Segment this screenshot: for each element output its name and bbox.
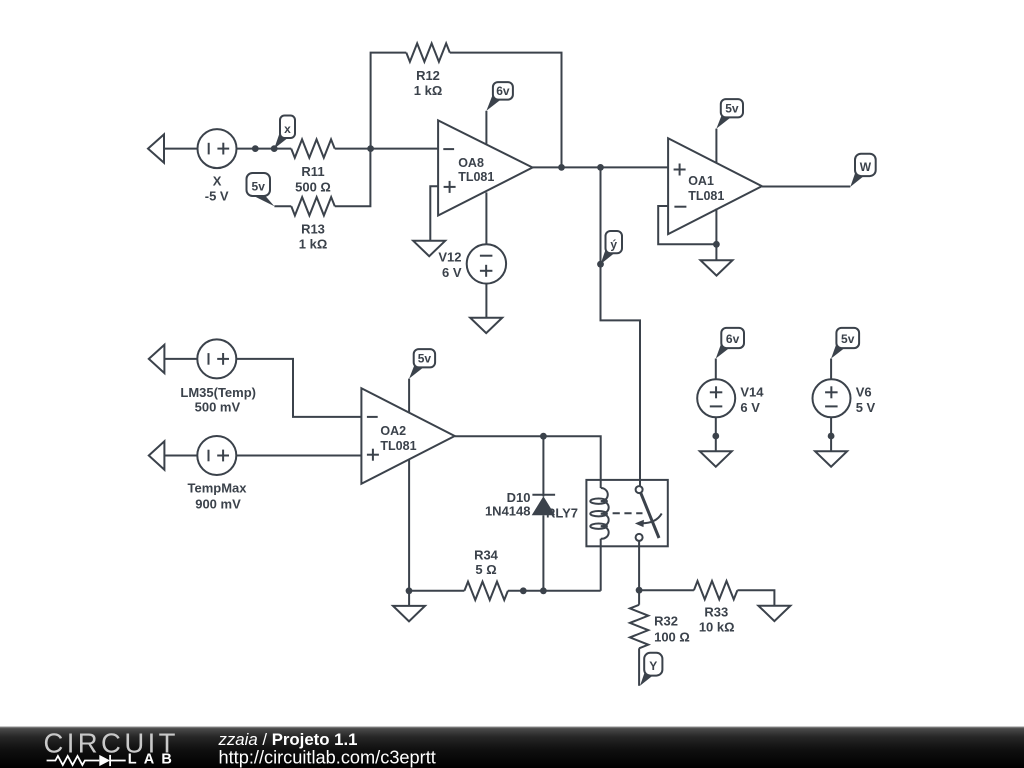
wire [715, 359, 717, 380]
svg-text:http://circuitlab.com/c3eprtt: http://circuitlab.com/c3eprtt [219, 748, 436, 768]
relay coil [590, 488, 608, 539]
flag 5v (V6) [831, 328, 859, 359]
wire [830, 359, 832, 380]
svg-text:6v: 6v [496, 84, 510, 98]
resistor R32 [630, 605, 648, 649]
wire (feedback up to R12) [371, 53, 407, 149]
flag 5v (OA1) [716, 99, 743, 129]
op-amp OA1 [668, 138, 762, 234]
svg-text:R34: R34 [474, 548, 499, 563]
svg-text:V14: V14 [740, 384, 764, 399]
svg-text:1 kΩ: 1 kΩ [299, 237, 328, 252]
svg-text:1N4148: 1N4148 [485, 503, 531, 518]
label R12 1 kohm [414, 68, 443, 98]
node dot [540, 587, 547, 594]
node junction [558, 164, 565, 171]
node dot [828, 433, 835, 440]
wire [335, 148, 438, 150]
resistor R11 [291, 139, 335, 157]
wire (OA1 V- pin) [715, 209, 717, 260]
node junction [540, 433, 547, 440]
input port arrow (X source) [148, 134, 164, 162]
svg-text:R32: R32 [654, 614, 678, 629]
wire (coil bottom pin) [600, 539, 602, 591]
relay RLY7 box [586, 480, 667, 546]
svg-text:zzaia / Projeto 1.1: zzaia / Projeto 1.1 [218, 730, 358, 749]
ground [815, 451, 847, 466]
label R13 1 kohm [299, 221, 328, 251]
svg-text:LM35(Temp): LM35(Temp) [180, 385, 256, 400]
ground [470, 318, 502, 333]
svg-text:5v: 5v [418, 352, 432, 366]
wire [164, 358, 197, 360]
diode D10 [532, 436, 555, 591]
op-amp OA8 [438, 120, 532, 215]
voltage source V14 [697, 379, 735, 417]
flag W [850, 154, 875, 187]
svg-text:RLY7: RLY7 [546, 506, 578, 521]
svg-text:TempMax: TempMax [188, 480, 248, 495]
wire [830, 417, 832, 451]
input port arrow (TempMax) [149, 441, 165, 469]
label OA1 TL081 [688, 174, 724, 203]
label R34 5 ohm [474, 548, 499, 577]
node dot [252, 145, 259, 152]
label D10 1N4148 [485, 490, 531, 518]
label R32 100 ohm [654, 614, 690, 645]
wire (OA1 - input feedback to ground node) [658, 206, 716, 244]
wire [237, 148, 292, 150]
label V6 5 V [856, 384, 876, 415]
label V12 6 V [438, 250, 461, 281]
wire [485, 284, 487, 318]
svg-text:OA2: OA2 [380, 424, 406, 438]
wire [274, 205, 291, 207]
svg-text:500 mV: 500 mV [195, 399, 241, 414]
wire (OA2 V- pin down) [408, 460, 410, 606]
wire [335, 149, 371, 207]
label V14 6 V [740, 384, 764, 415]
ground [700, 451, 732, 466]
svg-text:5v: 5v [252, 179, 266, 193]
wire (OA8 V- pin) [485, 192, 487, 244]
svg-text:V6: V6 [856, 384, 872, 399]
voltage source V6 [813, 379, 851, 417]
label OA2 TL081 [380, 424, 416, 453]
node dot [271, 145, 278, 152]
label X -5 V [205, 174, 229, 204]
wire (TempMax to OA2 + input) [236, 455, 361, 457]
node junction [713, 241, 720, 248]
svg-text:5v: 5v [841, 332, 855, 346]
svg-text:Y: Y [649, 659, 657, 673]
label LM35(Temp) 500 mV [180, 385, 256, 414]
ground [758, 606, 790, 621]
wire (to R33) [639, 589, 694, 591]
wire (OA8 + input to ground) [430, 186, 438, 240]
wire [164, 148, 198, 150]
input port arrow (LM35) [149, 345, 165, 373]
voltage source LM35(Temp) [197, 339, 236, 378]
flag y acute [601, 231, 623, 264]
relay switch [613, 486, 662, 541]
svg-text:R12: R12 [416, 68, 440, 83]
svg-text:R33: R33 [704, 605, 728, 620]
wire (OA8 output to OA1 + input) [533, 166, 669, 168]
resistor R12 [406, 43, 450, 61]
voltage source TempMax [197, 436, 236, 475]
ground [413, 241, 445, 256]
wire [715, 417, 717, 451]
ground [701, 260, 733, 275]
voltage source V12 [467, 244, 506, 283]
svg-text:x: x [284, 122, 291, 136]
svg-text:TL081: TL081 [380, 439, 416, 453]
svg-text:OA8: OA8 [458, 156, 484, 170]
node dot [712, 433, 719, 440]
label R11 500 ohm [295, 164, 331, 194]
wire (switch bottom pin) [638, 541, 640, 605]
svg-text:TL081: TL081 [688, 189, 724, 203]
wire (bottom rail to R34) [409, 590, 464, 592]
node dot (flag y) [597, 261, 604, 268]
svg-text:1 kΩ: 1 kΩ [414, 83, 443, 98]
wire (R12 to output node) [450, 53, 562, 168]
node junction [406, 587, 413, 594]
svg-text:100 Ω: 100 Ω [654, 629, 690, 644]
wire [164, 455, 197, 457]
wire (OA1 output) [762, 186, 850, 188]
wire [638, 648, 640, 686]
wire (node y down) [601, 167, 641, 486]
flag x [274, 116, 295, 149]
label TempMax 900 mV [188, 480, 248, 511]
flag 6v (OA8) [486, 82, 513, 111]
svg-text:6 V: 6 V [442, 265, 462, 280]
svg-text:5 Ω: 5 Ω [475, 562, 496, 577]
wire (OA2 output) [455, 436, 601, 488]
svg-text:ý: ý [610, 237, 617, 251]
logo schematic line (resistor + diode) [47, 755, 126, 766]
svg-text:10 kΩ: 10 kΩ [699, 619, 735, 634]
flag 5v (OA2) [409, 349, 435, 379]
svg-text:W: W [860, 160, 872, 174]
svg-text:R13: R13 [301, 221, 325, 236]
svg-text:5v: 5v [725, 102, 739, 116]
label OA8 TL081 [458, 156, 494, 184]
svg-text:-5 V: -5 V [205, 189, 229, 204]
svg-text:R11: R11 [301, 164, 324, 179]
svg-text:6 V: 6 V [740, 400, 760, 415]
svg-text:LAB: LAB [128, 751, 179, 767]
ground [393, 606, 425, 621]
svg-text:OA1: OA1 [688, 174, 714, 188]
wire [737, 590, 774, 605]
flag 6v (V14) [716, 328, 744, 359]
svg-text:6v: 6v [726, 332, 740, 346]
wire (LM35 to OA2 - input) [236, 359, 361, 417]
op-amp OA2 [361, 388, 454, 484]
svg-text:900 mV: 900 mV [195, 496, 241, 511]
node junction [367, 145, 374, 152]
wire (OA1 V+ pin) [715, 129, 717, 163]
resistor R13 [291, 197, 335, 215]
flag Y [640, 653, 662, 686]
voltage source X [198, 129, 237, 168]
wire (OA8 V+ pin) [485, 111, 487, 145]
svg-text:500 Ω: 500 Ω [295, 179, 331, 194]
svg-text:TL081: TL081 [458, 170, 494, 184]
svg-text:5 V: 5 V [856, 400, 876, 415]
wire (OA2 V+ pin) [408, 379, 410, 413]
node junction [597, 164, 604, 171]
resistor R33 [694, 581, 738, 599]
label R33 10 kohm [699, 605, 735, 635]
node junction [636, 587, 643, 594]
node dot [520, 587, 527, 594]
flag 5v (R13) [247, 173, 275, 206]
resistor R34 [464, 582, 508, 600]
svg-text:X: X [213, 174, 222, 189]
wire (R34 to relay coil) [508, 590, 601, 592]
svg-text:V12: V12 [438, 250, 461, 265]
